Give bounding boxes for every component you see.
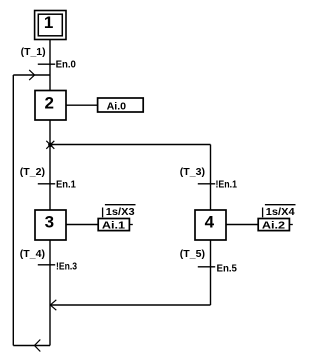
- step 3: [35, 210, 66, 240]
- transition T_4 bar: [38, 264, 55, 266]
- wire: far-left return vertical: [12, 75, 14, 346]
- svg-text:(T_5): (T_5): [180, 249, 205, 260]
- wire: right branch return horizontal with left arrow: [50, 300, 210, 310]
- wire: step4 to action Ai.2: [226, 224, 258, 226]
- action qualifier 1s/X4 with overline: [263, 205, 296, 218]
- svg-text:Ai.0: Ai.0: [107, 102, 127, 113]
- action box Ai.0: [98, 98, 144, 113]
- wire: step2 to action Ai.0: [66, 104, 98, 106]
- wire: divergence horizontal to right branch: [50, 144, 211, 146]
- action box Ai.2: [258, 219, 293, 232]
- wire: right branch down to step4: [210, 145, 212, 211]
- wire: step1 to step2 vertical: [49, 40, 51, 91]
- svg-text:(T_2): (T_2): [20, 167, 45, 178]
- wire: step4 down to return corner: [210, 240, 212, 305]
- svg-text:!En.3: !En.3: [56, 261, 77, 272]
- svg-text:Ai.2: Ai.2: [262, 220, 286, 231]
- svg-text:!En.1: !En.1: [216, 179, 238, 190]
- step 2: [35, 91, 66, 121]
- svg-text:2: 2: [44, 93, 53, 112]
- transition T_5 bar: [198, 266, 215, 268]
- svg-text:1s/X4: 1s/X4: [266, 207, 295, 218]
- svg-text:En.1: En.1: [56, 179, 76, 190]
- wire: step3 to action Ai.1: [66, 224, 98, 226]
- svg-text:(T_3): (T_3): [180, 167, 205, 178]
- action box Ai.1: [98, 219, 133, 232]
- svg-text:En.5: En.5: [217, 263, 238, 274]
- step 4: [195, 210, 226, 240]
- transition T_3 bar: [198, 183, 215, 185]
- wire: bottom horizontal with left arrow: [13, 340, 50, 352]
- svg-text:Ai.1: Ai.1: [102, 220, 126, 231]
- svg-text:1: 1: [44, 13, 53, 32]
- transition T_2 bar: [38, 183, 55, 185]
- svg-text:(T_4): (T_4): [20, 249, 45, 260]
- svg-text:4: 4: [205, 213, 215, 232]
- step 1 (initial step, double box): [35, 11, 66, 40]
- wire: step2 down to divergence: [49, 120, 51, 210]
- action qualifier 1s/X3 with overline: [103, 205, 136, 218]
- wire: return entry horizontal with right arrow: [13, 70, 50, 80]
- wire: step3 down to bottom corner: [49, 240, 51, 346]
- transition T_1 bar: [38, 63, 55, 65]
- node: OR-divergence star junction: [46, 141, 54, 149]
- svg-text:(T_1): (T_1): [21, 47, 46, 58]
- svg-text:En.0: En.0: [56, 60, 77, 71]
- svg-text:3: 3: [45, 213, 54, 232]
- svg-text:1s/X3: 1s/X3: [106, 207, 135, 218]
